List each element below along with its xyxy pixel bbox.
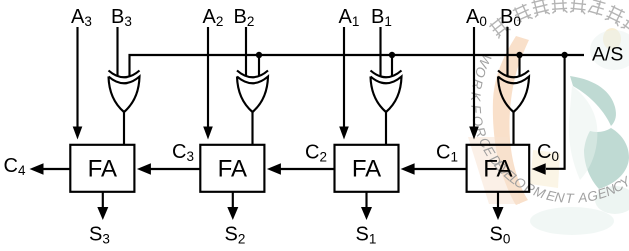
arrowhead A3 into FA3: [73, 127, 83, 140]
wire C4 out arrow: [42, 168, 70, 170]
pale yellow blob top right: [603, 28, 621, 50]
xor gate U3: [109, 71, 140, 146]
wire A/S drop to XOR1: [391, 55, 393, 76]
wire A1 vertical: [343, 27, 345, 128]
light teal wash around swoosh: [569, 86, 598, 180]
cjk char 8 (partial at edge): [620, 14, 629, 37]
svg-text:FA: FA: [218, 155, 247, 182]
arrowhead A0 into FA0: [469, 127, 479, 140]
wire carry C3 FA2 to FA3: [149, 168, 200, 170]
xor gate U2: [237, 71, 268, 146]
full adder FA0 box: [467, 145, 530, 192]
watermark circular text WORKFORCE DEVELOPMENT AGENCY: [468, 52, 629, 206]
svg-text:FA: FA: [483, 155, 512, 182]
watermark agency seal: [468, 28, 629, 235]
wire A3 vertical: [76, 27, 78, 128]
wire B2 vertical: [245, 27, 247, 76]
cjk char 7: [605, 4, 626, 26]
xor gate U1: [371, 71, 402, 146]
cjk char 6: [588, 0, 606, 16]
xor gate U0: [498, 71, 529, 146]
arrowhead A1 into FA1: [339, 127, 349, 140]
wire C0 from A/S to FA0: [546, 55, 565, 169]
arrowhead C3 into FA3: [137, 163, 151, 174]
orange ribbon of seal: [493, 36, 529, 205]
cjk char 3: [531, 0, 550, 18]
cjk char 2: [512, 3, 533, 25]
sum S1 wire: [365, 192, 367, 210]
junction dot at XOR0 drop: [516, 52, 522, 58]
arrowhead S0: [493, 207, 504, 220]
full adder FA3 box: [70, 145, 134, 192]
svg-text:FA: FA: [352, 155, 381, 182]
wire A/S drop to XOR2: [258, 55, 260, 76]
sum S0 wire: [497, 192, 499, 210]
junction dot at XOR1 drop: [389, 52, 395, 58]
wire carry C2 FA1 to FA2: [278, 168, 335, 170]
wire B1 vertical: [379, 27, 381, 76]
full adder FA2 box: [200, 145, 264, 192]
wire A2 vertical: [207, 27, 209, 128]
teal lower swoosh: [584, 128, 629, 189]
cjk char 4: [551, 0, 567, 14]
arrowhead C0 into FA0: [532, 163, 546, 174]
sum S2 wire: [232, 192, 234, 210]
junction dot at XOR2 drop: [256, 52, 262, 58]
full adder FA1 box: [335, 145, 399, 192]
arrowhead C4: [30, 163, 44, 174]
cjk char 1: [488, 16, 510, 39]
wire A/S drop to XOR0: [518, 55, 520, 76]
wire B3 vertical: [116, 27, 118, 76]
junction dot at C0 drop: [561, 52, 567, 58]
arrowhead C1 into FA1: [401, 163, 415, 174]
wire carry C1 FA0 to FA1: [412, 168, 467, 170]
svg-text:A/S: A/S: [592, 44, 623, 66]
pale orange wash over FA0: [468, 137, 520, 204]
cjk char 5: [570, 0, 587, 14]
sum S3 wire: [102, 192, 104, 210]
watermark chinese arc characters (stylized): [488, 0, 629, 39]
arrowhead C2 into FA2: [267, 163, 281, 174]
arrowhead S2: [227, 207, 238, 220]
arrowhead S1: [361, 207, 372, 220]
pale teal wash bottom: [530, 207, 614, 235]
wire B0 vertical: [506, 27, 508, 76]
svg-text:FA: FA: [88, 155, 117, 182]
teal upper hook of swoosh: [570, 76, 616, 126]
wire A/S horizontal bus: [130, 55, 585, 76]
arrowhead S3: [97, 207, 108, 220]
arrowhead A2 into FA2: [203, 127, 213, 140]
pale yellow wash right of FA0: [530, 150, 560, 188]
wire A0 vertical: [473, 27, 475, 128]
